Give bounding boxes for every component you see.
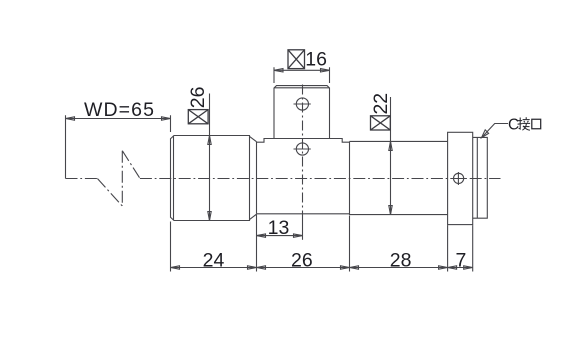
arrowhead dia26 top [208, 136, 211, 145]
arrowhead WD left [66, 117, 75, 120]
svg-text:24: 24 [203, 249, 225, 271]
dia22 leader line [390, 97, 392, 215]
svg-text:16: 16 [305, 49, 327, 71]
dim13 right extension [302, 216, 304, 240]
dim13 line [257, 235, 303, 237]
arrowhead chain 7 left [448, 266, 457, 269]
dia symbol box 26 [188, 110, 208, 124]
block vertical centerline [302, 85, 304, 217]
chain extension lines [171, 214, 473, 271]
svg-text:13: 13 [268, 217, 290, 239]
arrowhead chain 28 left [350, 266, 359, 269]
arrowhead chain 24 left [171, 266, 180, 269]
section3 outline [350, 141, 448, 214]
dia symbol box 16 [288, 50, 305, 69]
svg-text:WD=65: WD=65 [84, 99, 155, 121]
CJK glyph kou (mouth/port) [532, 119, 541, 128]
arrowhead dim13 left [257, 234, 266, 237]
arrowhead dim13 right [294, 234, 303, 237]
top block [274, 86, 330, 139]
arrowhead dia16 right [321, 69, 330, 72]
svg-text:22: 22 [370, 93, 392, 115]
arrowhead C-mount leader [482, 130, 489, 138]
arrowhead dia16 left [274, 69, 283, 72]
arrowhead dia26 bottom [208, 212, 211, 221]
centerline main axis [66, 178, 501, 180]
svg-text:26: 26 [187, 87, 209, 109]
WD dimension line [66, 118, 171, 120]
C-mount cylinder [473, 137, 488, 218]
arrowhead chain 26 left [257, 266, 266, 269]
hole H1 crosshair [296, 98, 308, 110]
dia16 extension lines [274, 67, 330, 83]
front barrel body [171, 136, 250, 221]
flange hole crosshair [454, 173, 464, 183]
front barrel bezel line [173, 136, 175, 221]
flange [448, 132, 473, 224]
dia26 leader line [209, 94, 211, 221]
cone transition bottom [250, 214, 257, 219]
C-mount leader [482, 124, 509, 138]
svg-text:7: 7 [455, 249, 466, 271]
section2 left face [256, 142, 258, 214]
chain dimension line [171, 267, 473, 269]
dia symbol box 22 [371, 116, 391, 130]
WD extension lines [66, 115, 171, 178]
arrowhead chain 26 right [341, 266, 350, 269]
section2/3 boundary [349, 141, 351, 215]
dia16 dimension line [274, 69, 330, 71]
arrowhead WD right [162, 117, 171, 120]
svg-text:26: 26 [291, 249, 313, 271]
hole H2 crosshair [296, 143, 308, 155]
top block chamfer line [274, 87, 330, 89]
svg-text:28: 28 [390, 249, 412, 271]
arrowhead chain 28 right [439, 266, 448, 269]
section2 top profile [257, 139, 350, 143]
arrowhead dia22 bottom [389, 206, 392, 215]
arrowhead dia22 top [389, 141, 392, 150]
cone transition top [250, 136, 257, 141]
arrowhead chain 7 right [464, 266, 473, 269]
arrowhead chain 24 right [248, 266, 257, 269]
svg-text:C: C [508, 117, 519, 134]
break symbol zigzag [97, 151, 139, 206]
section2 bottom edge [257, 213, 350, 215]
CJK glyph jie (interface) [518, 117, 531, 130]
